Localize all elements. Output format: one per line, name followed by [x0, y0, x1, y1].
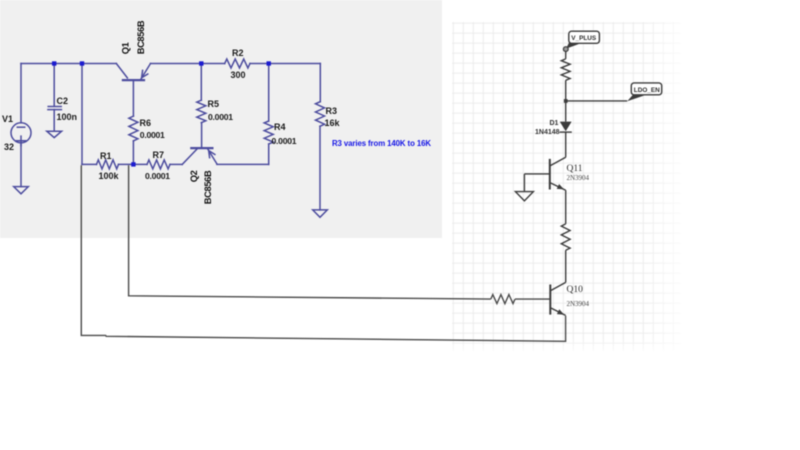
svg-text:Q1: Q1	[121, 42, 131, 54]
svg-text:BC856B: BC856B	[136, 20, 146, 54]
svg-text:Q2: Q2	[189, 170, 199, 182]
svg-text:BC856B: BC856B	[203, 170, 213, 204]
